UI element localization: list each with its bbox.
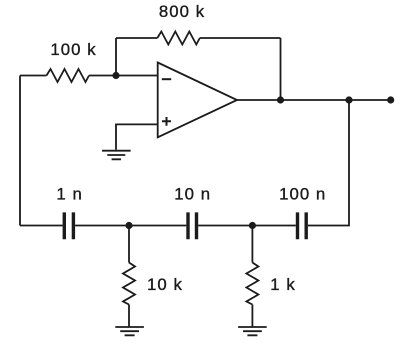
wire left vertical (node V1 to bottom C-ladder input) — [19, 76, 21, 226]
op-amp U1 minus input marker — [162, 78, 171, 80]
node B junction dot (feedback joins output) — [277, 96, 284, 103]
ground (op-amp + input) — [102, 151, 131, 160]
output terminal dot — [387, 96, 394, 103]
wire right vertical from output down to ladder — [308, 100, 349, 226]
svg-text:10 n: 10 n — [174, 184, 211, 203]
op-amp U1 plus input marker — [162, 117, 171, 126]
wire from left rail to resistor R1 — [20, 75, 47, 77]
svg-text:1 n: 1 n — [56, 184, 82, 203]
wire node D down to R3 — [128, 226, 130, 263]
svg-text:1 k: 1 k — [270, 275, 296, 294]
svg-text:800 k: 800 k — [159, 2, 205, 21]
svg-text:100 n: 100 n — [279, 184, 326, 203]
wire node E down to R4 — [251, 226, 253, 263]
resistor R1 100 k — [47, 69, 90, 82]
capacitor C2 10 n — [188, 212, 197, 239]
wire C3 to node E — [252, 225, 295, 227]
ground (below R3) — [115, 327, 144, 335]
resistor R3 10 k — [123, 263, 135, 305]
op-amp U1 body — [158, 63, 237, 138]
capacitor C1 1 n — [64, 212, 73, 239]
wire node E to C2 — [198, 225, 252, 227]
node E junction dot — [249, 222, 256, 229]
wire non-inverting input to ground — [116, 124, 158, 149]
resistor R2 800 k (feedback) — [157, 32, 200, 45]
wire node D to C1 — [75, 225, 129, 227]
wire R2 to feedback corner — [200, 37, 281, 39]
wire from R1 to op-amp inverting input — [89, 75, 158, 77]
ground (below R4) — [238, 327, 267, 335]
svg-text:10 k: 10 k — [147, 275, 183, 294]
node C junction dot (output to ladder) — [345, 96, 352, 103]
wire C2 to node D — [129, 225, 186, 227]
wire feedback vertical down to output node — [280, 38, 282, 100]
wire R4 to ground — [251, 305, 253, 327]
svg-text:100 k: 100 k — [50, 40, 96, 59]
wire op-amp output to output terminal — [237, 99, 391, 101]
node D junction dot — [125, 222, 132, 229]
wire top to resistor R2 — [116, 37, 157, 39]
wire C1 to left rail — [20, 225, 63, 227]
resistor R4 1 k — [246, 263, 258, 305]
node A junction dot (inverting input node) — [112, 72, 119, 79]
wire node A up to feedback branch — [115, 38, 117, 76]
capacitor C3 100 n — [298, 212, 307, 239]
wire R3 to ground — [128, 305, 130, 327]
